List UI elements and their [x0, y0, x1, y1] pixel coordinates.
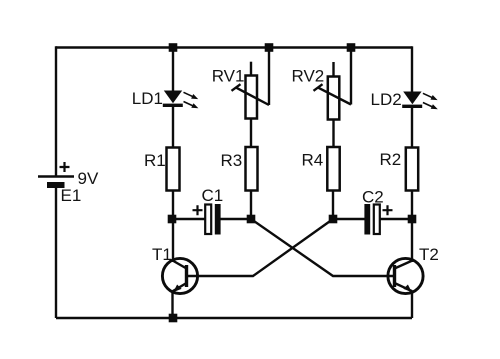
potentiometer RV2 [314, 77, 352, 120]
battery E1 [38, 162, 74, 188]
wire LD1 anode from top rail [172, 48, 174, 93]
wire T1 emitter to bottom rail [171, 291, 173, 318]
svg-text:C1: C1 [202, 186, 224, 205]
wire node C to C2 left plate [333, 218, 365, 220]
wire RV2 wiper feed from top rail [350, 48, 352, 105]
svg-text:LD1: LD1 [132, 89, 163, 108]
svg-text:R2: R2 [380, 150, 402, 169]
wire RV1 wiper feed from top rail [268, 48, 270, 106]
svg-text:RV1: RV1 [212, 67, 245, 86]
node C R4 bottom [329, 215, 338, 224]
svg-text:LD2: LD2 [371, 90, 402, 109]
node bottom rail T1 emitter [169, 314, 178, 323]
svg-text:C2: C2 [362, 188, 384, 207]
wire left side upper [55, 46, 57, 176]
wire RV2 top stub [332, 62, 334, 77]
potentiometer RV1 [232, 76, 270, 119]
svg-text:R1: R1 [144, 151, 166, 170]
svg-text:T1: T1 [152, 245, 172, 264]
wire R2 to node D [411, 190, 413, 219]
wire R4 to node C [332, 190, 334, 219]
svg-text:E1: E1 [61, 186, 82, 205]
wire RV2 to R4 [332, 120, 334, 149]
capacitor C1 [193, 204, 221, 235]
wire node C diagonal to T1 base [187, 219, 333, 276]
wire C1 right plate to node B [220, 218, 251, 220]
wire top rail [56, 46, 412, 48]
node D T2 collector [408, 215, 417, 224]
wire C2 right plate to node D [380, 218, 412, 220]
svg-text:R3: R3 [221, 151, 243, 170]
svg-text:R4: R4 [302, 151, 324, 170]
transistor T2 [388, 258, 423, 293]
node junction dots [168, 43, 417, 322]
node top rail RV1 [265, 43, 274, 52]
resistor R3 [246, 147, 258, 191]
LED LD1 [163, 91, 199, 109]
wire node A to T1 collector [172, 219, 174, 262]
node A T1 collector [168, 215, 177, 224]
resistor R4 [327, 147, 339, 191]
wire R3 to node B [250, 190, 252, 219]
wire LD2 cathode to R2 [411, 107, 413, 148]
wire LD2 anode from top rail [411, 46, 413, 93]
wire node B diagonal to T2 base [251, 219, 394, 276]
svg-text:RV2: RV2 [292, 67, 325, 86]
wire LD1 cathode to R1 [172, 106, 174, 148]
LED LD2 [402, 92, 438, 110]
wire left side lower [55, 187, 57, 318]
wire R1 to node A [172, 190, 174, 219]
capacitor C2 [364, 204, 392, 235]
resistor R1 [167, 148, 180, 191]
node top rail LD1 [169, 43, 178, 52]
wire node A to C1 left plate [172, 218, 206, 220]
node top rail RV2 [347, 43, 356, 52]
wire bottom rail [56, 317, 412, 319]
wire T2 emitter to bottom rail [411, 291, 413, 318]
resistor R2 [406, 148, 418, 191]
svg-text:T2: T2 [419, 245, 439, 264]
node B R3 bottom [247, 215, 256, 224]
wire RV1 top stub [250, 62, 252, 76]
wire RV1 to R3 [250, 119, 252, 149]
wire node D to T2 collector [411, 219, 413, 262]
transistor T1 [162, 258, 197, 293]
